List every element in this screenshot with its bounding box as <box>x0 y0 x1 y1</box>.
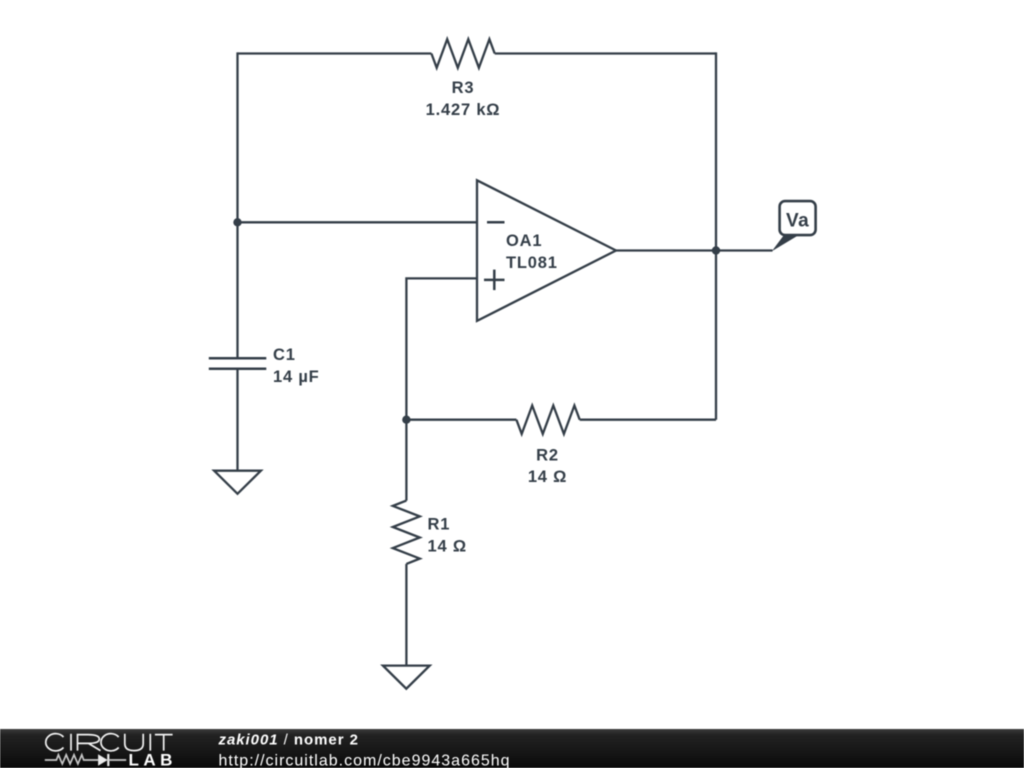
net flag Va text <box>786 211 809 232</box>
wire R1 to ground <box>405 564 407 666</box>
ground symbol under C1 <box>214 471 261 494</box>
wire right rail vertical <box>715 52 717 419</box>
svg-text:R3: R3 <box>452 79 475 97</box>
wire left rail vertical (top wire down to C1) <box>236 52 238 358</box>
logo CIRCUIT letters <box>46 734 173 751</box>
value of R2 <box>528 468 567 486</box>
node output junction dot <box>712 246 720 254</box>
label R3 <box>452 79 475 97</box>
op-amp plus sign <box>484 270 505 291</box>
label C1 <box>273 346 296 364</box>
footer username / title <box>218 732 359 749</box>
svg-text:C1: C1 <box>273 346 296 364</box>
wire R2 left segment (node B to R2) <box>406 419 516 421</box>
svg-text:14 µF: 14 µF <box>273 368 320 386</box>
footer url <box>219 752 511 768</box>
wire inverting input (node A to op-amp minus) <box>238 221 478 223</box>
wire top-right horizontal (R3 to right rail) <box>495 52 716 54</box>
node B junction dot (R1/R2/plus tee) <box>402 416 410 424</box>
net flag Va box <box>780 201 816 235</box>
svg-text:TL081: TL081 <box>506 254 558 272</box>
wire node B down to R1 <box>405 420 407 501</box>
svg-text:R2: R2 <box>536 447 559 465</box>
value TL081 <box>506 254 558 272</box>
svg-text:http://circuitlab.com/cbe9943a: http://circuitlab.com/cbe9943a665hq <box>219 752 511 768</box>
capacitor C1 plates <box>209 358 266 368</box>
svg-text:R1: R1 <box>428 516 451 534</box>
wire C1 to ground <box>236 369 238 471</box>
footer bar <box>0 729 1024 768</box>
node A junction dot (inverting input tee) <box>233 218 241 226</box>
op-amp OA1 triangle <box>477 180 616 321</box>
wire output (op-amp apex to Va flag) <box>616 249 773 251</box>
resistor R1 <box>393 501 420 564</box>
wire non-inverting input (node B up to op-amp plus) <box>406 278 477 419</box>
label OA1 <box>506 232 542 250</box>
svg-text:OA1: OA1 <box>506 232 542 250</box>
wire top-left horizontal (left rail to R3) <box>238 52 432 54</box>
label R2 <box>536 447 559 465</box>
value of C1 <box>273 368 320 386</box>
svg-text:14 Ω: 14 Ω <box>528 468 567 486</box>
resistor R3 <box>431 39 494 68</box>
svg-text:14 Ω: 14 Ω <box>428 538 467 556</box>
svg-text:LAB: LAB <box>129 751 177 768</box>
svg-text:1.427 kΩ: 1.427 kΩ <box>426 101 501 119</box>
net flag Va tail <box>772 236 798 252</box>
ground symbol under R1 <box>383 666 430 689</box>
value of R1 <box>428 538 467 556</box>
resistor R2 <box>516 406 579 434</box>
svg-text:zaki001 / nomer 2: zaki001 / nomer 2 <box>218 732 359 749</box>
value of R3 <box>426 101 501 119</box>
op-amp minus sign <box>487 221 505 224</box>
svg-text:Va: Va <box>786 211 809 232</box>
logo LAB text <box>129 751 177 768</box>
logo diode <box>98 754 126 766</box>
logo resistor squiggle <box>45 755 98 764</box>
label R1 <box>428 516 451 534</box>
wire R2 right segment (R2 to right rail) <box>580 419 716 421</box>
